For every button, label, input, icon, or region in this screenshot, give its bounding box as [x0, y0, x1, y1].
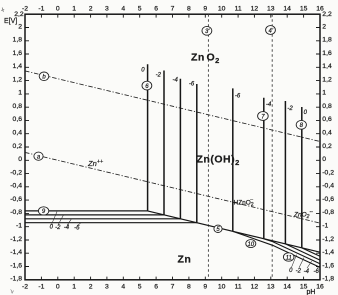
svg-text:-2: -2	[296, 269, 302, 275]
svg-text:pH: pH	[307, 289, 316, 295]
svg-text:4: 4	[121, 284, 125, 291]
svg-text:0,2: 0,2	[13, 143, 23, 150]
svg-text:-1,8: -1,8	[322, 276, 334, 283]
line 4' (HZnO2-/ZnO2-- boundary, dashed vertical pH 13.1)	[271, 14, 273, 280]
svg-text:11: 11	[235, 284, 242, 291]
svg-text:-1: -1	[322, 223, 328, 230]
axis frame	[25, 14, 320, 280]
svg-text:9: 9	[203, 6, 207, 13]
svg-text:8: 8	[187, 284, 191, 291]
leader ticks bottom-right	[292, 255, 321, 269]
svg-text:-1,6: -1,6	[322, 262, 334, 269]
svg-text:-4: -4	[266, 102, 272, 108]
svg-text:-0,2: -0,2	[322, 169, 334, 176]
svg-text:3: 3	[105, 284, 109, 291]
circle label 9	[38, 207, 48, 215]
svg-text:-1: -1	[38, 6, 44, 13]
concentration labels above line 6 tops	[141, 68, 195, 88]
line 7 family (Zn(OH)2/HZnO2- verticals, log C = -6,-4)	[232, 88, 234, 231]
concentration labels bottom-right (0 -2 -4 -6)	[289, 268, 319, 275]
svg-text:10: 10	[218, 284, 226, 291]
left axis ticks	[25, 28, 29, 267]
svg-text:1,6: 1,6	[13, 50, 23, 57]
line 11 branch log C=-2	[285, 244, 320, 260]
svg-text:2,2: 2,2	[322, 11, 332, 18]
svg-text:1,4: 1,4	[322, 63, 332, 70]
svg-text:-0,8: -0,8	[10, 209, 22, 216]
line 10/11 branch log C=-4	[264, 239, 320, 264]
svg-text:2: 2	[322, 23, 326, 30]
svg-text:6: 6	[154, 6, 158, 13]
svg-text:1: 1	[72, 6, 76, 13]
line 9 family (Zn/Zn++ horizontals, log C = 0,-2,-4,-6)	[25, 210, 148, 212]
svg-text:1,2: 1,2	[13, 76, 23, 83]
line 3' (Zn++/HZnO2- boundary, dashed vertical pH 9.2)	[207, 14, 209, 280]
svg-text:1: 1	[322, 90, 326, 97]
svg-text:14: 14	[283, 284, 291, 291]
svg-text:-0,2: -0,2	[10, 169, 22, 176]
svg-text:15: 15	[300, 6, 308, 13]
svg-text:13: 13	[267, 6, 275, 13]
svg-text:-6: -6	[189, 81, 195, 87]
svg-text:12: 12	[251, 6, 259, 13]
svg-text:11: 11	[286, 255, 292, 261]
svg-text:3: 3	[105, 6, 109, 13]
circle label 8	[296, 120, 306, 129]
scan artifact top-left	[1, 8, 4, 13]
svg-text:1: 1	[72, 284, 76, 291]
svg-text:0,2: 0,2	[322, 143, 332, 150]
circle label 6	[142, 81, 152, 90]
svg-text:14: 14	[283, 6, 291, 13]
svg-text:0,4: 0,4	[13, 130, 23, 137]
svg-text:-1: -1	[16, 223, 22, 230]
svg-text:2: 2	[89, 284, 93, 291]
concentration labels bottom-left (0 -2 -4 -6)	[50, 225, 80, 232]
svg-text:0,6: 0,6	[13, 116, 23, 123]
svg-text:13: 13	[267, 284, 275, 291]
svg-text:0,8: 0,8	[13, 103, 23, 110]
circle label 5	[214, 225, 222, 233]
line 10/11 branch log C=-6 (HZnO2-/Zn then ZnO2--/Zn)	[233, 231, 320, 267]
svg-text:11: 11	[235, 6, 242, 13]
svg-text:1,8: 1,8	[322, 37, 332, 44]
circle label a on hydrogen line	[34, 152, 43, 161]
svg-text:-6: -6	[74, 226, 80, 232]
svg-text:-1,8: -1,8	[10, 276, 22, 283]
svg-text:4: 4	[121, 6, 125, 13]
svg-text:-2: -2	[55, 225, 61, 231]
svg-text:-1,6: -1,6	[10, 262, 22, 269]
svg-text:5: 5	[138, 6, 142, 13]
svg-text:-4: -4	[64, 225, 70, 231]
svg-text:5: 5	[138, 284, 142, 291]
svg-text:-0,8: -0,8	[322, 209, 334, 216]
line b (oxygen equilibrium, dash-dot)	[25, 71, 320, 142]
svg-text:-0,6: -0,6	[10, 196, 22, 203]
svg-text:1,2: 1,2	[322, 76, 332, 83]
line 11 branch log C=0	[302, 248, 320, 256]
leader ticks bottom-left	[51, 212, 80, 226]
svg-text:2,2: 2,2	[14, 11, 24, 18]
svg-text:Zn(OH)2: Zn(OH)2	[197, 154, 240, 167]
svg-text:16: 16	[316, 284, 324, 291]
circle label 10	[246, 240, 256, 248]
svg-text:-1,4: -1,4	[10, 249, 22, 256]
svg-text:8: 8	[187, 6, 191, 13]
svg-text:0: 0	[56, 6, 60, 13]
scan artifact bottom-left	[11, 290, 14, 294]
svg-text:0: 0	[322, 156, 326, 163]
svg-text:-1,2: -1,2	[322, 236, 334, 243]
svg-text:-4: -4	[304, 269, 310, 275]
top axis ticks	[41, 14, 303, 17]
svg-text:1: 1	[18, 90, 22, 97]
svg-text:1,8: 1,8	[13, 37, 23, 44]
left E scale numerals	[10, 11, 24, 283]
svg-text:10: 10	[247, 242, 254, 248]
svg-text:-0,4: -0,4	[322, 183, 334, 190]
concentration labels right of line 8 tops	[287, 106, 307, 116]
svg-text:9: 9	[203, 284, 207, 291]
top pH scale numerals	[22, 6, 324, 13]
svg-text:0: 0	[18, 156, 22, 163]
svg-text:Zn: Zn	[178, 254, 192, 266]
right E scale numerals	[322, 11, 334, 283]
svg-text:-0,4: -0,4	[10, 183, 22, 190]
line 5 (Zn(OH)2/Zn sloped boundary)	[148, 211, 320, 252]
svg-text:6: 6	[154, 284, 158, 291]
svg-text:7: 7	[171, 6, 175, 13]
circle label 11	[283, 253, 294, 261]
svg-text:-0,6: -0,6	[322, 196, 334, 203]
line 6 family (Zn++/Zn(OH)2 verticals, log C = 0,-2,-4,-6)	[147, 64, 149, 211]
circle label 7	[258, 112, 269, 121]
svg-text:-6: -6	[314, 269, 320, 275]
line 8 family (Zn(OH)2/ZnO2-- verticals, log C = -2,0)	[284, 101, 286, 244]
right axis ticks	[316, 28, 320, 267]
svg-text:-1,4: -1,4	[322, 249, 334, 256]
circle label 4'	[266, 26, 276, 35]
svg-text:-1: -1	[38, 284, 44, 291]
svg-text:10: 10	[218, 6, 226, 13]
svg-text:12: 12	[251, 284, 259, 291]
svg-text:-4: -4	[173, 77, 179, 83]
concentration labels right of line 7 tops	[235, 94, 272, 108]
svg-text:-2: -2	[156, 73, 162, 79]
svg-text:-6: -6	[235, 94, 241, 100]
svg-text:-1,2: -1,2	[10, 236, 22, 243]
svg-text:-2: -2	[287, 106, 293, 112]
svg-text:0: 0	[56, 284, 60, 291]
svg-text:E[V]: E[V]	[4, 18, 17, 25]
svg-text:0,6: 0,6	[322, 116, 332, 123]
svg-text:1,6: 1,6	[322, 50, 332, 57]
line a (hydrogen equilibrium, dash-dot)	[25, 152, 320, 223]
svg-text:7: 7	[171, 284, 175, 291]
svg-text:1,4: 1,4	[13, 63, 23, 70]
svg-text:0,8: 0,8	[322, 103, 332, 110]
svg-text:0,4: 0,4	[322, 130, 332, 137]
svg-text:-2: -2	[22, 284, 28, 291]
svg-text:2: 2	[18, 23, 22, 30]
svg-text:2: 2	[89, 6, 93, 13]
circle label b on oxygen line	[39, 72, 49, 81]
bottom pH scale numerals	[22, 284, 324, 291]
bottom axis ticks	[41, 277, 303, 280]
circle label 3'	[202, 26, 212, 35]
